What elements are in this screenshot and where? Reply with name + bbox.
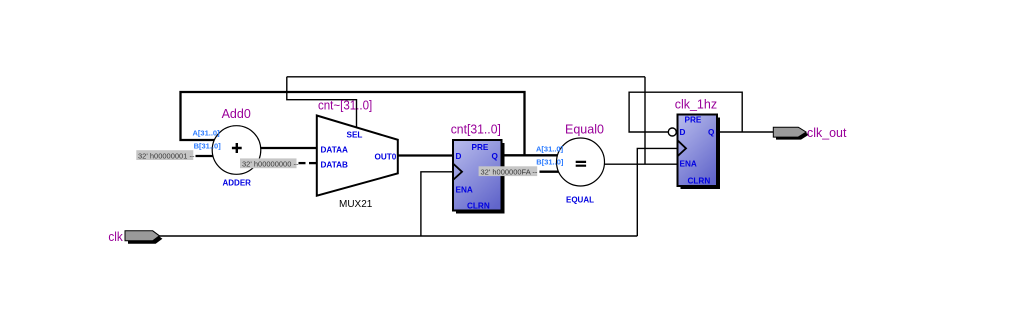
wire: constant 0 dash stub [299,162,306,164]
wire: clk branch to clk_1hz clock [637,148,677,236]
register clk_1hz clock triangle [678,140,687,156]
svg-text:cnt~[31..0]: cnt~[31..0] [318,99,372,113]
svg-text:DATAA: DATAA [321,146,349,155]
svg-text:PRE: PRE [685,116,702,125]
svg-text:B[31..0]: B[31..0] [536,158,564,167]
label cnt PRE [472,143,489,152]
svg-text:ENA: ENA [680,160,697,169]
wire: constant FA to Equal0 B (bus) [540,171,559,173]
svg-text:CLRN: CLRN [688,177,711,186]
svg-text:Equal0: Equal0 [565,123,604,137]
wire: cnt Q to Equal0 A (bus) [502,154,558,156]
label EQUAL [566,196,594,205]
wire: SEL net top horizontal run [287,76,645,78]
mux MUX21 trapezoid [317,116,398,196]
wire: Equal0 output to clk_1hz ENA [604,163,677,165]
label clk_1hz Q [708,128,715,137]
label clk_1hz ENA [680,160,697,169]
label clk_1hz [675,98,717,112]
svg-text:clk: clk [108,230,123,244]
label Equal0 B[31..0] [536,158,564,167]
register clk_1hz body [678,115,718,187]
constant 32' h00000000 [240,158,299,168]
input pin clk [125,231,159,241]
label cnt Q [492,152,499,161]
svg-text:SEL: SEL [347,131,363,140]
input pin clk shadow [128,234,162,244]
label MUX21 [339,199,373,210]
svg-text:Q: Q [492,152,499,161]
svg-text:ADDER: ADDER [223,179,252,188]
svg-text:cnt[31..0]: cnt[31..0] [451,123,501,137]
svg-text:Q: Q [708,128,715,137]
svg-text:B[31..0]: B[31..0] [194,142,222,151]
svg-text:CLRN: CLRN [467,202,490,211]
label Equal0 A[31..0] [536,145,564,154]
adder Add0 circle [212,126,261,175]
svg-text:A[31..0]: A[31..0] [536,145,564,154]
wire: MUX21 OUT0 to cnt D (bus) [398,154,453,156]
svg-text:D: D [456,152,462,161]
label DATAB [321,161,349,170]
output pin clk_out shadow [776,130,809,140]
register cnt clock triangle [453,164,462,181]
wire: clk net main horizontal [159,235,637,237]
label cnt CLRN [467,202,490,211]
constant 32' h00000001 [136,150,195,160]
label ADDER [223,179,252,188]
label cnt~[31..0] [318,99,372,113]
svg-text:clk_out: clk_out [807,126,847,140]
svg-text:32' h00000001 --: 32' h00000001 -- [138,151,195,160]
svg-text:Add0: Add0 [222,107,251,121]
comparator Equal0 circle [557,138,605,186]
wire: clk_1hz Q to output pin [717,131,774,133]
svg-text:OUT0: OUT0 [375,153,397,162]
label Add0 A[31..0] [193,129,221,138]
label clk_1hz CLRN [688,177,711,186]
wire: constant 0 to MUX21 DATAB (bus) [309,162,317,164]
svg-text:clk_1hz: clk_1hz [675,98,717,112]
svg-text:A[31..0]: A[31..0] [193,129,221,138]
output pin clk_out [773,127,806,137]
wire: SEL net drop to MUX21 SEL [287,77,357,128]
wire: constant 1 to Add0 B (bus) [196,155,214,157]
label clk_1hz D [680,128,686,137]
register cnt[31..0] body [453,140,502,211]
wire: Add0 output to MUX21 DATAA (bus) [261,147,317,149]
svg-text:ENA: ENA [456,186,473,195]
comparator equals sign [576,162,586,166]
adder plus sign [232,143,242,153]
label Equal0 [565,123,604,137]
register cnt[31..0] shadow [456,143,505,214]
label cnt[31..0] [451,123,501,137]
label OUT0 [375,153,397,162]
label clk_1hz PRE [685,116,702,125]
label clk [108,230,123,244]
wire: SEL net vertical riser at x=645 [644,77,646,164]
label SEL [347,131,363,140]
svg-text:PRE: PRE [472,143,489,152]
label DATAA [321,146,349,155]
register clk_1hz input bubble [668,128,676,136]
svg-text:MUX21: MUX21 [339,199,373,210]
wire: clk branch to cnt clock [421,172,453,236]
label cnt ENA [456,186,473,195]
label cnt D [456,152,462,161]
label clk_out [807,126,847,140]
svg-text:D: D [680,128,686,137]
label Add0 [222,107,251,121]
svg-text:32' h00000000 --: 32' h00000000 -- [242,160,299,169]
constant 32' h000000FA [479,166,538,176]
wire: cnt Q feedback to Add0 A (bus) [181,92,525,155]
register clk_1hz shadow [681,118,721,190]
label Add0 B[31..0] [194,142,222,151]
svg-text:32' h000000FA --: 32' h000000FA -- [481,167,538,176]
wire: clk_1hz Q feedback loop to D bubble [629,92,742,132]
svg-text:EQUAL: EQUAL [566,196,594,205]
svg-text:DATAB: DATAB [321,161,349,170]
